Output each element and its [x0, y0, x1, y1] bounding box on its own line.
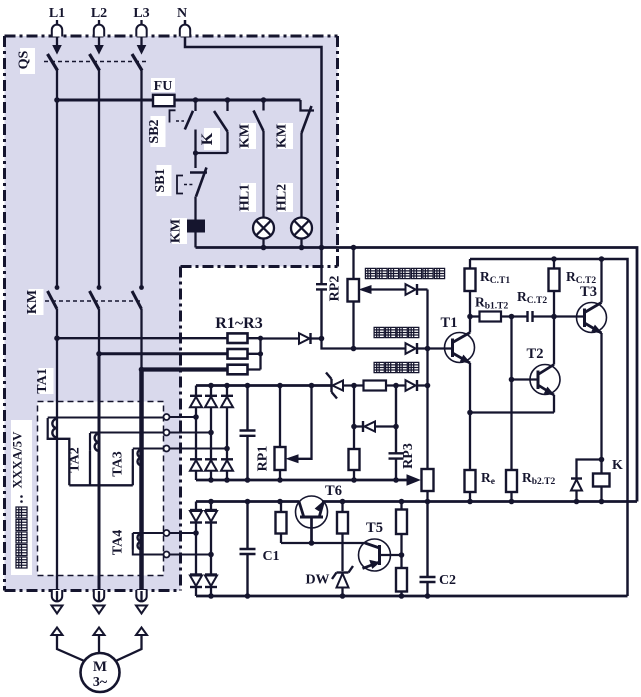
junction (601.5,459.5): [599, 457, 605, 463]
junction (141.5,369.5): [139, 367, 145, 373]
junction (247.5,385.5): [245, 383, 251, 389]
frame: shaded region right border: [336, 36, 339, 267]
junction (280,480): [277, 477, 283, 483]
pushbutton SB2: [194, 100, 196, 111]
wire L2 drop: [98, 20, 100, 45]
label TA1: [39, 368, 54, 394]
transformer TA1 secondary leads: [48, 417, 166, 419]
bottom terminal bump L1: [52, 590, 62, 601]
junction (280,501.5): [277, 499, 283, 505]
pushbutton SB1: [190, 171, 207, 174]
svg-text:TA4: TA4: [111, 530, 126, 555]
svg-text:FU: FU: [154, 79, 173, 94]
wire x342 branch: [341, 502, 343, 513]
diode D overload: [406, 380, 416, 391]
junction (196,533): [193, 530, 199, 536]
junction (211,501.5): [208, 499, 214, 505]
terminal bump N: [180, 25, 190, 37]
transistor T1: [445, 333, 475, 363]
wire N drop and run to control rail: [185, 20, 322, 248]
junction (554,259): [551, 256, 557, 262]
label K contact: [204, 128, 220, 150]
junction (227,385.5): [224, 383, 230, 389]
svg-text:TA1: TA1: [35, 368, 50, 393]
junction (260.5,338.2): [258, 336, 263, 341]
junction (301.5,247.5): [299, 245, 305, 251]
electronics bottom rail: [196, 595, 628, 598]
contact KM lamp branch 2: [301, 100, 315, 111]
junction (427.5,385.5): [425, 383, 431, 389]
amplifier supply rail: [470, 259, 628, 596]
transformer TA2 winding: [95, 434, 99, 451]
rectifier bridge 1 column 2: [210, 386, 212, 396]
junction (470,412.5): [467, 410, 473, 416]
diode D short-circuit: [406, 343, 416, 354]
frame: electronics box top border: [181, 265, 338, 268]
connector arrows phase A: [56, 591, 58, 602]
resistor lower x401: [396, 568, 407, 592]
junction (263.5,247.5): [261, 245, 267, 251]
zener overload: [333, 381, 344, 391]
junction (601.5,501.5): [599, 499, 605, 505]
terminal bump L3: [136, 25, 146, 37]
arrowhead L3: [138, 46, 146, 54]
svg-text:DW: DW: [305, 573, 329, 588]
text short-circuit trip (CJK): [374, 327, 419, 337]
wire T3 emitter to relay: [600, 333, 602, 474]
svg-text:KM: KM: [238, 124, 253, 148]
wire T1 collector: [469, 291, 471, 333]
capacitor Cc.T2: [528, 311, 533, 322]
resistor Rc.T2: [549, 269, 560, 292]
electronics ground rail right: [322, 500, 637, 503]
junction (321.5,338.5): [319, 336, 325, 342]
label TA2: [71, 446, 86, 474]
svg-text:M: M: [93, 659, 107, 675]
wire to SB1: [194, 153, 196, 168]
wire x401 branch: [400, 502, 402, 510]
svg-text:N: N: [177, 6, 187, 21]
junction (57,287.5): [55, 285, 60, 290]
resistor T5 bias: [337, 512, 348, 534]
wire T3 collector: [600, 259, 602, 303]
svg-text:KM: KM: [25, 290, 40, 314]
transformer TA4 secondary leads: [133, 532, 166, 534]
text overload trip (CJK): [374, 362, 419, 372]
wire T2 collector: [553, 291, 555, 365]
wire L1 drop: [56, 20, 58, 45]
junction (396,426.5): [393, 424, 399, 430]
arrowhead L2: [95, 46, 103, 54]
junction (511.5,316.5): [509, 314, 515, 320]
junction (211,554.5): [208, 552, 214, 558]
junction (321.5,247.5): [319, 245, 325, 251]
wire L3 drop: [140, 20, 142, 45]
resistor overload: [364, 381, 387, 391]
svg-text:RP1: RP1: [256, 446, 271, 472]
wire branch x396: [389, 386, 404, 481]
frame: shaded region bottom border: [5, 589, 181, 592]
label HL2: [278, 183, 293, 212]
junction (211,432.5): [208, 430, 214, 436]
switch QS mechanical link: [44, 61, 146, 63]
wire tap to R1: [57, 337, 228, 339]
svg-text:QS: QS: [17, 50, 32, 69]
wire L1 QS to KM: [56, 70, 58, 288]
resistor Rc.T1: [465, 269, 476, 292]
terminal circles TA outputs: [164, 414, 170, 420]
power-section shaded region: [5, 36, 338, 591]
contactor KM main pole 1: [48, 291, 58, 309]
label TA3: [114, 450, 129, 478]
frame: shaded region top border: [5, 35, 338, 38]
arrowhead L1: [53, 46, 61, 54]
junction (227,480): [224, 477, 230, 483]
junction (99,287.5): [97, 285, 102, 290]
terminal bump L2: [94, 25, 104, 37]
terminal bump L1: [52, 25, 62, 37]
junction (354,480): [351, 477, 357, 483]
svg-text:T5: T5: [366, 520, 383, 536]
labels: [49, 6, 187, 21]
rectifier bridge 2 column 1: [195, 502, 197, 511]
switch QS pole 2 blade: [90, 54, 100, 71]
wire resistor to diode: [386, 384, 406, 386]
transistor T3: [577, 303, 607, 333]
junction (396,480): [393, 477, 399, 483]
resistor upper x401: [396, 510, 407, 535]
junction (354,385.5): [351, 383, 357, 389]
fuse FU: [153, 95, 175, 106]
svg-text:KM: KM: [169, 219, 184, 243]
junction (141.5,287.5): [139, 285, 144, 290]
label HL1: [241, 183, 256, 212]
junction (57,100): [54, 97, 60, 103]
rectifier bridge 1 column 3: [226, 386, 228, 396]
wiper arrow into RP3: [407, 475, 420, 485]
bottom terminal bump L3: [136, 590, 146, 601]
svg-text:KM: KM: [275, 124, 290, 148]
label TA4: [114, 529, 129, 557]
junction (211,480): [208, 477, 214, 483]
wire SB2/K join: [196, 152, 228, 154]
svg-text:T1: T1: [441, 315, 458, 331]
junction (576.5,501.5): [574, 499, 580, 505]
switch QS pole 1 blade: [48, 54, 58, 71]
svg-text:R1~R3: R1~R3: [215, 315, 262, 332]
junction (195.5,100): [193, 97, 199, 103]
wire to diode: [261, 337, 300, 339]
wire control bus right: [175, 99, 301, 102]
lamp HL2: [291, 218, 312, 239]
resistor T6 bias: [280, 502, 282, 513]
junction (511.5,501.5): [509, 499, 515, 505]
wire TA common: [69, 484, 133, 486]
contactor KM main pole 3: [132, 291, 142, 309]
potentiometer RP3: [422, 469, 434, 491]
svg-text:RP2: RP2: [328, 276, 343, 302]
frame: electronics box left border: [179, 267, 182, 591]
connector arrows phase C: [140, 591, 142, 602]
junction (247.5,501.5): [245, 499, 251, 505]
resistor mid: [349, 449, 360, 470]
junction (401.5,501.5): [399, 499, 405, 505]
transformer TA4 winding: [138, 534, 142, 550]
svg-text:T2: T2: [527, 346, 544, 362]
svg-text:C1: C1: [262, 549, 279, 564]
electronics ground rail left: [196, 500, 299, 503]
wire OR line: [426, 290, 428, 470]
wire tap to R3: [142, 367, 228, 371]
resistor R3: [228, 365, 248, 375]
junction (57,338.2): [54, 335, 60, 341]
wire control bus left: [57, 99, 153, 102]
wire Rb2 line: [510, 317, 512, 471]
svg-text:C2: C2: [439, 573, 456, 588]
wire coil to rail: [194, 232, 196, 248]
svg-text:HL1: HL1: [238, 184, 253, 211]
diode across K: [577, 460, 602, 479]
wire terminals to rectifier: [170, 417, 228, 555]
capacitor C1: [240, 502, 256, 597]
junction (401.5,555): [399, 552, 405, 558]
svg-text:L2: L2: [91, 6, 107, 21]
junction (353.5,348.5): [351, 346, 357, 352]
wire T6 base run: [281, 542, 365, 544]
junction (196,417): [193, 414, 199, 420]
capacitor on N line: [316, 248, 327, 339]
svg-text:K: K: [612, 458, 623, 473]
wire phase C down: [140, 309, 142, 370]
potentiometer RP1: [279, 386, 281, 448]
white strip behind transmitter text: [11, 420, 32, 575]
resistor Re: [465, 470, 476, 492]
junction (260.5,353.8): [258, 351, 263, 356]
svg-text:TA2: TA2: [68, 447, 83, 472]
junction (311.5,543): [309, 540, 315, 546]
contact K: [226, 100, 228, 111]
junction (354,426.5): [351, 424, 357, 430]
diode D undervoltage: [406, 284, 416, 295]
rectifier bridge 2 column 2: [210, 502, 212, 511]
transistor T6: [296, 496, 328, 528]
wire tap to R2: [99, 352, 228, 355]
wire undervoltage branch from node down: [353, 386, 355, 450]
junction (427.5,501.5): [425, 499, 431, 505]
svg-text:L3: L3: [133, 6, 149, 21]
label KM main: [29, 289, 44, 315]
svg-text:L1: L1: [49, 6, 65, 21]
connector arrows phase B: [98, 591, 100, 602]
contact KM lamp branch 1: [262, 100, 264, 111]
wire phase B down: [98, 309, 100, 354]
wire T2 emitter: [553, 395, 555, 413]
transistor T5: [359, 539, 391, 571]
junction (211,385.5): [208, 383, 214, 389]
label SB2: [151, 116, 166, 147]
junction (511.5,379.5): [509, 377, 515, 383]
junction (427.5,596): [425, 593, 431, 599]
rectifier bridge 1 column 1: [195, 386, 197, 396]
transformer TA3 winding: [138, 450, 142, 466]
coil KM: [188, 221, 205, 232]
label KM aux1: [241, 123, 256, 149]
junction (211,596): [208, 593, 214, 599]
svg-text:RP3: RP3: [401, 443, 416, 469]
resistor R1: [228, 333, 248, 343]
text undervoltage and phase-loss trip (CJK): [365, 268, 444, 278]
zener DW: [337, 571, 349, 573]
junction (311.5,385.5): [309, 383, 315, 389]
transistor T2: [512, 378, 539, 380]
junction (247.5,596): [245, 593, 251, 599]
lamp HL1: [253, 218, 274, 239]
bottom terminal bump L2: [94, 590, 104, 601]
junction (554,316.5): [551, 314, 557, 320]
label SB1: [157, 165, 172, 196]
label KM aux2: [278, 123, 293, 149]
wire T1 base: [428, 347, 453, 349]
junction (401.5,596): [399, 593, 405, 599]
wire short-circuit line: [322, 339, 406, 349]
switch QS pole 3 blade: [132, 54, 142, 71]
junction (99,353.8): [96, 351, 102, 357]
wire zener to node: [343, 384, 364, 386]
svg-text:SB1: SB1: [153, 168, 168, 192]
frame: TA1 dashed box: [38, 402, 164, 576]
svg-text:T3: T3: [580, 284, 597, 300]
wire L3 QS to KM: [140, 70, 142, 288]
junction (470,501.5): [467, 499, 473, 505]
junction (396,385.5): [393, 383, 399, 389]
svg-text:K: K: [199, 132, 216, 145]
label FU: [151, 78, 175, 92]
junction (227,448.5): [224, 446, 230, 452]
motor M: [81, 653, 120, 692]
TA1 box white interior: [38, 402, 164, 576]
junction (353.5,247.5): [351, 245, 357, 251]
wire T1 emitter down: [469, 363, 471, 470]
rectifier bridge 1 top rail: [196, 384, 332, 387]
junction (263.5,100): [261, 97, 267, 103]
svg-text:HL2: HL2: [275, 184, 290, 211]
wire phase A down: [56, 309, 58, 591]
transformer TA3 secondary leads: [133, 448, 166, 450]
diode middle pointing left: [365, 422, 376, 432]
wire L2 QS to KM: [98, 70, 100, 288]
svg-text:TA3: TA3: [111, 451, 126, 476]
junction (427.5,348.5): [425, 346, 431, 352]
transformer TA1 winding: [52, 419, 57, 438]
wire control bottom rail: [196, 248, 638, 502]
filter capacitor: [240, 386, 256, 481]
contactor KM mechanical link: [45, 300, 143, 302]
text current transmitter (CJK vertical): [16, 495, 27, 568]
contactor KM main pole 2: [90, 291, 100, 309]
frame: shaded region left border: [3, 36, 6, 591]
label QS: [20, 48, 35, 74]
junction (247.5,480): [245, 477, 251, 483]
diode D short-circuit feed: [299, 333, 310, 344]
svg-text:XXXA/5V: XXXA/5V: [10, 431, 25, 489]
svg-text:T6: T6: [325, 483, 342, 499]
wire emitters join: [470, 411, 554, 413]
rectifier bridge 1 bottom rail: [196, 479, 407, 482]
junction (601.5,259): [599, 256, 605, 262]
junction (342.5,596): [340, 593, 346, 599]
resistor Rb2.T2: [506, 470, 517, 492]
wire R1-R3 join: [248, 338, 261, 369]
resistor R2: [228, 349, 248, 359]
resistor Rb1.T2: [480, 312, 502, 322]
svg-text:SB2: SB2: [147, 119, 162, 143]
label KM coil: [172, 218, 187, 244]
junction (195.5,153): [193, 150, 198, 155]
junction (227.5,100): [225, 97, 231, 103]
junction (342.5,501.5): [340, 499, 346, 505]
capacitor C2: [420, 502, 436, 597]
svg-text:3~: 3~: [93, 675, 108, 690]
relay K coil: [593, 474, 610, 487]
wire Rb1 line: [470, 315, 480, 317]
junction (470,316.5): [467, 314, 473, 320]
transformer TA2 secondary leads: [90, 432, 166, 434]
junction (280,385.5): [277, 383, 283, 389]
potentiometer RP2: [352, 248, 354, 280]
